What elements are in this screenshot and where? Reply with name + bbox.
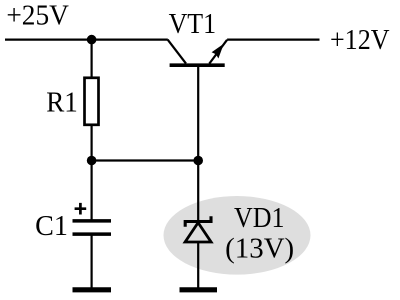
emitter arrowhead	[212, 44, 224, 59]
wire VD1 anode to ground	[197, 242, 199, 288]
wire base to node C	[197, 66, 199, 161]
node A junction on +25V rail	[87, 35, 97, 45]
wire node B to C1 top plate	[90, 161, 92, 221]
wire node B to node C	[92, 159, 199, 161]
svg-text:C1: C1	[35, 211, 68, 242]
wire R1 bottom to node B	[90, 126, 92, 161]
node C junction	[193, 156, 203, 166]
svg-text:(13V): (13V)	[225, 233, 294, 264]
zener diode VD1	[185, 216, 211, 242]
ground under C1	[73, 287, 112, 292]
collector lead diagonal	[168, 40, 186, 64]
wire C1 bottom plate to ground	[90, 234, 92, 288]
svg-text:+25V: +25V	[6, 0, 69, 31]
svg-text:VD1: VD1	[234, 203, 285, 234]
wire +25V rail	[5, 38, 168, 40]
emitter lead diagonal	[209, 40, 227, 64]
capacitor C1 plus sign	[75, 203, 87, 215]
wire emitter to +12V	[227, 38, 319, 40]
ground under VD1	[180, 287, 218, 292]
svg-text:+12V: +12V	[330, 25, 390, 56]
svg-text:VT1: VT1	[169, 9, 217, 40]
highlight ellipse around VD1	[164, 196, 311, 275]
node B junction	[87, 156, 97, 166]
base bar	[170, 63, 225, 67]
transistor VT1	[168, 40, 228, 66]
cathode bar with zener bent tips	[185, 216, 211, 227]
capacitor C1	[73, 221, 112, 234]
resistor R1	[85, 78, 99, 125]
anode triangle pointing up	[185, 223, 211, 242]
svg-text:R1: R1	[46, 87, 78, 118]
wire node A to R1 top	[90, 40, 92, 78]
wire node C to VD1 cathode	[197, 161, 199, 222]
